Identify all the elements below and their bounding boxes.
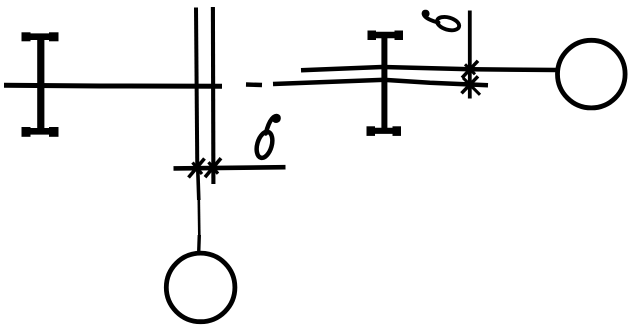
column I-beam 1 bottom flange (23, 128, 58, 135)
wire: left dimension line (174, 167, 286, 168)
arrow tick X at lower axis (462, 76, 479, 93)
column I-beam 1 top flange (23, 33, 58, 40)
column I-beam 2 top flange (369, 32, 401, 38)
theodolite circle right (558, 40, 626, 108)
wire: right dimension line (vertical) (468, 11, 472, 99)
arrow tick X at upper axis (462, 61, 478, 78)
wire: plumb line B (right of pair) (211, 7, 216, 184)
theodolite circle bottom (166, 253, 235, 322)
column I-beam 2 bottom flange (368, 128, 400, 134)
column I-beam 2 stem (381, 38, 387, 129)
arrow tick X at line B (205, 158, 221, 177)
wire: plumb line A (left) (196, 8, 197, 171)
wire: left axis line (4, 83, 222, 89)
arrow tick X at line A (189, 159, 205, 178)
label delta (left) (254, 116, 279, 160)
wire: plumb line A continuation to circle (198, 170, 199, 200)
wire: axis dash segment (246, 82, 262, 87)
wire: lower right axis line (273, 80, 488, 85)
wire: upper right axis line (301, 67, 557, 70)
label delta (right, rotated) (424, 12, 461, 33)
column I-beam 1 stem (37, 37, 44, 134)
